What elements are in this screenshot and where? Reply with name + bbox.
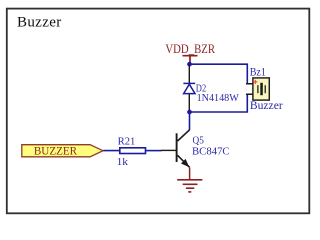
svg-text:BUZZER: BUZZER [34,146,78,158]
wire buzzer bottom to collector node [190,94,248,112]
transistor Q5 base bar [176,133,178,162]
wire VDD to buzzer top [190,64,248,84]
power symbol VDD_BZR [165,41,215,63]
svg-text:Bz1: Bz1 [250,65,266,79]
svg-text:1k: 1k [117,156,129,168]
svg-text:BC847C: BC847C [192,145,230,157]
svg-text:R21: R21 [118,135,136,147]
svg-text:Buzzer: Buzzer [250,98,283,112]
port BUZZER [22,145,103,157]
svg-text:1N4148W: 1N4148W [197,92,240,104]
svg-text:Buzzer: Buzzer [17,15,61,31]
svg-text:VDD_BZR: VDD_BZR [165,41,215,56]
diode D2 symbol [183,83,195,93]
transistor Q5 base pin [161,149,176,151]
buzzer Bz1 body [253,78,269,100]
ground [177,168,202,192]
buzzer element bars [260,83,263,95]
wire collector node down [189,112,191,130]
buzzer Bz1 pins [246,84,253,95]
wire R21 to base [146,150,162,152]
transistor Q5 emitter [178,155,190,167]
resistor R21 [120,148,146,154]
wire port to R21 [103,150,120,152]
diode D2 pins [188,66,190,111]
junction node collector [187,110,192,115]
transistor Q5 collector [178,130,190,141]
buzzer plus mark [253,80,257,84]
junction node VDD [187,62,192,67]
